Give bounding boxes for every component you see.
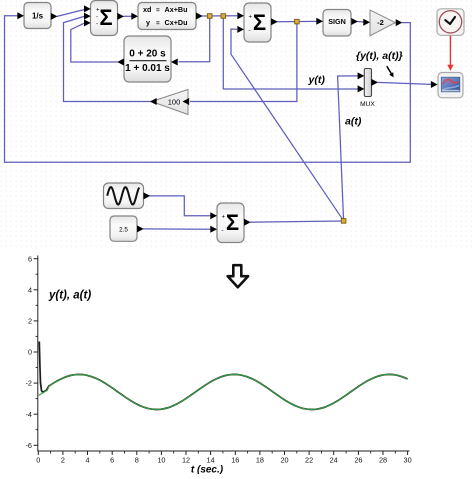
wire sum S3 output to node J4: [250, 221, 344, 222]
svg-text:28: 28: [379, 456, 387, 465]
svg-text:t (sec.): t (sec.): [191, 465, 224, 475]
svg-text:20: 20: [280, 456, 288, 465]
svg-text:8: 8: [135, 456, 139, 465]
svg-text:-: -: [96, 15, 98, 21]
svg-text:4: 4: [28, 285, 32, 294]
node J4: [341, 219, 346, 224]
wire node J3 down to gain 100 input: [190, 22, 297, 102]
svg-text:-: -: [249, 28, 251, 34]
wire node J4 up to mux input 1 (a signal): [338, 76, 358, 221]
red event wire clock to scope: [447, 36, 453, 71]
svg-text:100: 100: [168, 97, 181, 106]
node J2: [221, 14, 226, 19]
svg-text:2: 2: [61, 456, 65, 465]
sine wave generator block: [104, 183, 151, 209]
wire sum S1 output to state-space input: [124, 15, 133, 17]
wire node J2 down to mux input 2 (y signal): [223, 16, 358, 89]
svg-text:{y(t), a(t)}: {y(t), a(t)}: [356, 50, 403, 62]
svg-text:18: 18: [256, 456, 264, 465]
svg-text:y(t), a(t): y(t), a(t): [48, 290, 91, 302]
plot x-axis ticks and labels: [36, 451, 411, 465]
svg-text:-: -: [222, 228, 224, 234]
svg-text:10: 10: [157, 456, 165, 465]
svg-text:=: =: [156, 20, 160, 27]
svg-text:y(t): y(t): [308, 74, 326, 86]
svg-text:a(t): a(t): [345, 116, 362, 128]
svg-text:+: +: [222, 215, 226, 221]
wire node J1 down to transfer-fn input: [179, 16, 210, 62]
svg-text:Cx+Du: Cx+Du: [165, 18, 188, 27]
svg-text:6: 6: [110, 456, 114, 465]
svg-text:Ax+Bu: Ax+Bu: [165, 5, 188, 14]
svg-text:y: y: [146, 18, 150, 27]
grid dots: [0, 0, 474, 250]
svg-text:-6: -6: [26, 441, 33, 450]
plot y-axis: [37, 256, 39, 452]
constant block 2.5: [110, 216, 144, 241]
wire transfer-fn output to sum S1 input 3: [71, 23, 118, 62]
svg-text:-2: -2: [377, 18, 384, 27]
svg-text:2.5: 2.5: [119, 226, 128, 233]
svg-text:Σ: Σ: [253, 10, 266, 35]
plot y-axis ticks and labels: [26, 254, 38, 450]
SIGN block: [316, 10, 358, 37]
transfer function block (0+20s)/(1+0.01s): [117, 36, 178, 82]
gain block 100: [150, 90, 189, 115]
svg-text:0 + 20 s: 0 + 20 s: [129, 49, 166, 60]
svg-text:26: 26: [354, 456, 362, 465]
svg-text:2: 2: [28, 317, 32, 326]
wire sine generator output to sum S3 input 1: [150, 196, 212, 216]
svg-text:+: +: [249, 14, 253, 20]
wire sum S2 output to SIGN input: [277, 20, 317, 22]
svg-text:MUX: MUX: [360, 101, 375, 108]
clock block: [437, 9, 464, 36]
svg-text:-4: -4: [26, 410, 33, 419]
wire outer feedback loop: gain -2 output to integrator 1/s input: [5, 16, 411, 163]
wire SIGN output to gain -2 input: [358, 21, 364, 24]
annotation arrow from label to mux output wire: [387, 66, 394, 77]
svg-text:16: 16: [231, 456, 239, 465]
svg-text:12: 12: [182, 456, 190, 465]
plot curve y(t) black with initial transient: [39, 342, 407, 410]
wire mux output to scope input: [378, 82, 432, 84]
wire gain 100 output to sum S1 input 2: [64, 16, 152, 101]
plot curve a(t) green: [39, 374, 408, 409]
summation block S1: [84, 1, 124, 36]
svg-text:14: 14: [207, 456, 215, 465]
svg-text:0: 0: [28, 348, 32, 357]
svg-text:4: 4: [85, 456, 89, 465]
node J1: [207, 14, 212, 19]
svg-text:22: 22: [305, 456, 313, 465]
svg-text:Σ: Σ: [99, 5, 112, 30]
svg-text:6: 6: [28, 254, 32, 263]
gain block -2: [363, 10, 402, 36]
svg-text:Σ: Σ: [226, 210, 239, 235]
svg-text:SIGN: SIGN: [328, 17, 346, 26]
integrator block 1/s: [17, 3, 57, 29]
svg-text:-2: -2: [26, 379, 33, 388]
summation block S3: [210, 203, 250, 243]
svg-text:=: =: [156, 7, 160, 14]
wire node J4 diagonal to sum S2 input 2: [231, 29, 344, 221]
state-space block xd=Ax+Bu y=Cx+Du: [131, 3, 202, 30]
summation block S2: [237, 3, 277, 42]
wire constant 2.5 output to sum S3 input 2: [143, 228, 211, 230]
wire 1/s output to sum S1 input 1: [57, 10, 84, 17]
svg-text:30: 30: [404, 456, 412, 465]
scope block: [431, 73, 463, 98]
wire state-space output to sum S2 input 1: [202, 15, 237, 17]
svg-text:1 + 0.01 s: 1 + 0.01 s: [125, 63, 170, 74]
mux block MUX: [358, 69, 378, 109]
node J3: [295, 19, 300, 24]
hollow down arrow between diagram and plot: [228, 265, 248, 287]
svg-text:-: -: [96, 22, 98, 28]
plot x-axis: [38, 450, 410, 452]
svg-text:xd: xd: [143, 5, 151, 14]
svg-text:24: 24: [330, 456, 338, 465]
svg-text:1/s: 1/s: [32, 12, 44, 21]
svg-text:0: 0: [36, 456, 40, 465]
